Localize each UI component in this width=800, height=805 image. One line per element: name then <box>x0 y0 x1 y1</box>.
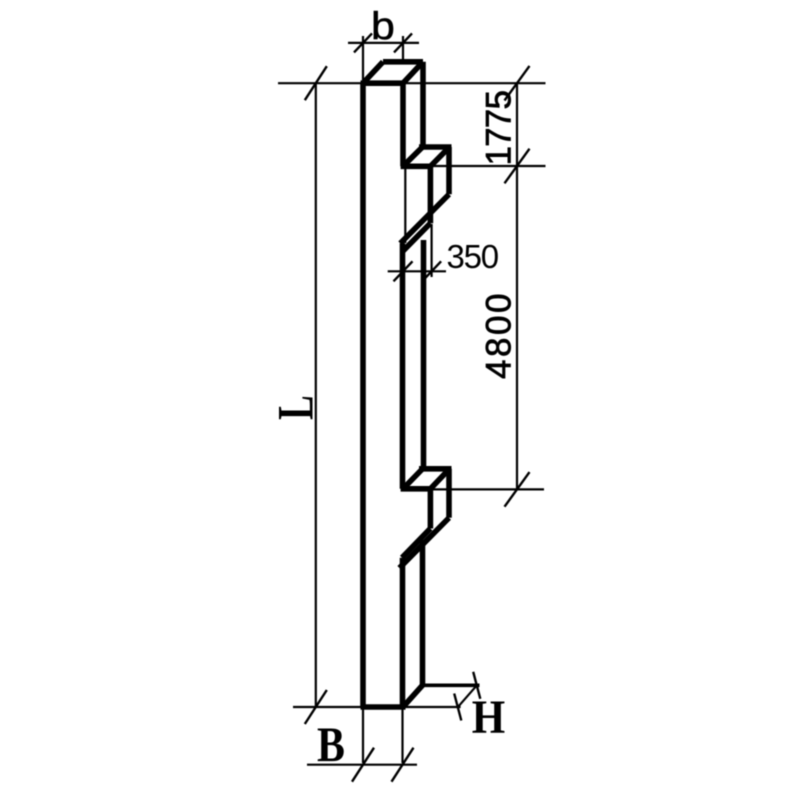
upper corbel front sloped bottom edge <box>402 223 430 252</box>
middle extension line at corbel top <box>430 165 545 167</box>
tick 4800 bottom <box>505 472 530 507</box>
lower extension line at lower corbel top <box>430 488 544 490</box>
upper corbel front-right vertical edge <box>428 166 434 223</box>
tick B left <box>352 748 374 782</box>
column back-right edge upper segment <box>420 62 426 147</box>
extension line B right <box>401 707 403 763</box>
lower corbel front-right vertical edge <box>428 489 434 529</box>
lower corbel back-right vertical edge <box>446 469 452 518</box>
svg-text:H: H <box>472 691 505 743</box>
column top face right depth edge <box>403 62 423 83</box>
extension line 350 left <box>404 169 406 243</box>
tick 1775 top <box>505 66 530 101</box>
dimension line L <box>315 83 317 707</box>
tick b left <box>354 33 372 52</box>
svg-text:L: L <box>268 395 324 420</box>
tick L bottom <box>305 690 327 724</box>
dimension line H diagonal <box>459 685 478 707</box>
column bottom front edge <box>361 704 406 710</box>
lower corbel top face right depth edge <box>430 469 449 489</box>
lower corbel front sloped bottom edge <box>402 529 430 558</box>
column front-right edge middle segment <box>400 243 406 488</box>
dimension line 350 <box>388 270 446 272</box>
tick b right <box>394 33 412 52</box>
tick 350 left <box>394 261 413 281</box>
extension line b right <box>402 36 404 59</box>
tick L top <box>305 66 327 100</box>
tick 1775 bottom <box>505 149 530 184</box>
column front-right edge lower segment <box>400 558 406 707</box>
extension line 350 right <box>431 224 433 277</box>
column top back edge <box>383 59 423 65</box>
svg-text:350: 350 <box>447 238 499 275</box>
upper corbel top face left depth edge <box>403 147 423 166</box>
tick H front <box>454 694 461 721</box>
svg-text:4800: 4800 <box>480 291 519 379</box>
column front-left edge <box>360 83 366 707</box>
upper corbel top face right depth edge <box>430 147 449 166</box>
svg-text:1775: 1775 <box>480 91 519 166</box>
column front-right edge upper segment <box>400 83 406 166</box>
extension line b left <box>362 36 364 80</box>
tick B right <box>392 748 414 782</box>
bottom extension line <box>293 706 461 708</box>
column back-right edge lower segment <box>420 540 426 685</box>
extension line B left <box>362 707 364 763</box>
upper corbel back sloped bottom edge <box>400 194 449 243</box>
top extension line <box>278 82 546 84</box>
column back-right edge middle segment <box>421 240 427 469</box>
upper corbel back top edge <box>419 144 452 150</box>
upper corbel front top edge <box>401 164 431 170</box>
lower corbel front top edge <box>401 486 431 492</box>
svg-text:B: B <box>317 717 345 772</box>
column bottom back edge with H extension <box>420 683 480 687</box>
column bottom face depth edge <box>403 685 423 707</box>
upper corbel back-right vertical edge <box>446 147 452 194</box>
lower corbel top face left depth edge <box>403 469 423 489</box>
lower corbel back sloped bottom edge <box>399 518 449 568</box>
column top face left depth edge <box>363 62 383 83</box>
tick 350 right <box>422 261 441 281</box>
dimension line b <box>348 42 419 44</box>
svg-text:b: b <box>371 5 395 49</box>
dimension line B <box>307 764 417 766</box>
dimension line 1775 and 4800 <box>516 83 518 490</box>
lower corbel back top edge <box>419 466 452 472</box>
column top front edge <box>361 80 406 86</box>
tick H back <box>473 672 480 699</box>
